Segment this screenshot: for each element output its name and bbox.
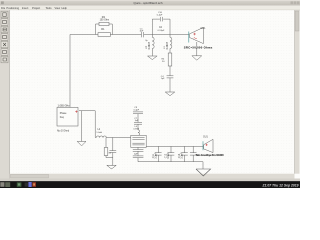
svg-text:3.3pF: 3.3pF xyxy=(154,152,157,159)
svg-text:Positioning: Positioning xyxy=(6,6,19,10)
svg-text:Qucs - spkr/filter2.sch: Qucs - spkr/filter2.sch xyxy=(133,1,162,5)
svg-text:0.38nH: 0.38nH xyxy=(148,42,151,50)
svg-text:View: View xyxy=(55,6,61,10)
svg-text:0.9nH: 0.9nH xyxy=(133,128,139,130)
svg-text:0.38nH: 0.38nH xyxy=(166,42,169,50)
svg-text:0.4pF: 0.4pF xyxy=(134,110,140,112)
svg-text:No (0 Ohm): No (0 Ohm) xyxy=(57,130,69,132)
svg-text:SRC=50,000 Ohms: SRC=50,000 Ohms xyxy=(184,45,213,49)
svg-text:File: File xyxy=(1,6,6,10)
svg-text:3.3pF: 3.3pF xyxy=(167,152,170,159)
svg-text:OU1: OU1 xyxy=(203,136,208,138)
svg-text:Help: Help xyxy=(62,6,68,10)
svg-text:Tools: Tools xyxy=(46,6,53,10)
svg-text:Project: Project xyxy=(32,6,40,10)
svg-text:1.0nH: 1.0nH xyxy=(96,132,102,134)
svg-text:Insert: Insert xyxy=(22,6,29,10)
svg-text:Tato Goodbye Fro 10.000: Tato Goodbye Fro 10.000 xyxy=(196,153,224,157)
svg-text:GU1: GU1 xyxy=(201,27,207,30)
svg-text:3.3pF: 3.3pF xyxy=(181,152,184,159)
svg-text:freq: freq xyxy=(60,116,65,119)
svg-text:Phase: Phase xyxy=(60,113,67,115)
svg-text:1.065 GHz: 1.065 GHz xyxy=(58,105,71,108)
svg-text:21:07 Thu 12 Sep 2019: 21:07 Thu 12 Sep 2019 xyxy=(262,184,299,188)
svg-text:100 Ohm: 100 Ohm xyxy=(100,20,110,22)
svg-text:0.24pF: 0.24pF xyxy=(158,30,165,32)
svg-text:0.4pF: 0.4pF xyxy=(157,15,163,17)
